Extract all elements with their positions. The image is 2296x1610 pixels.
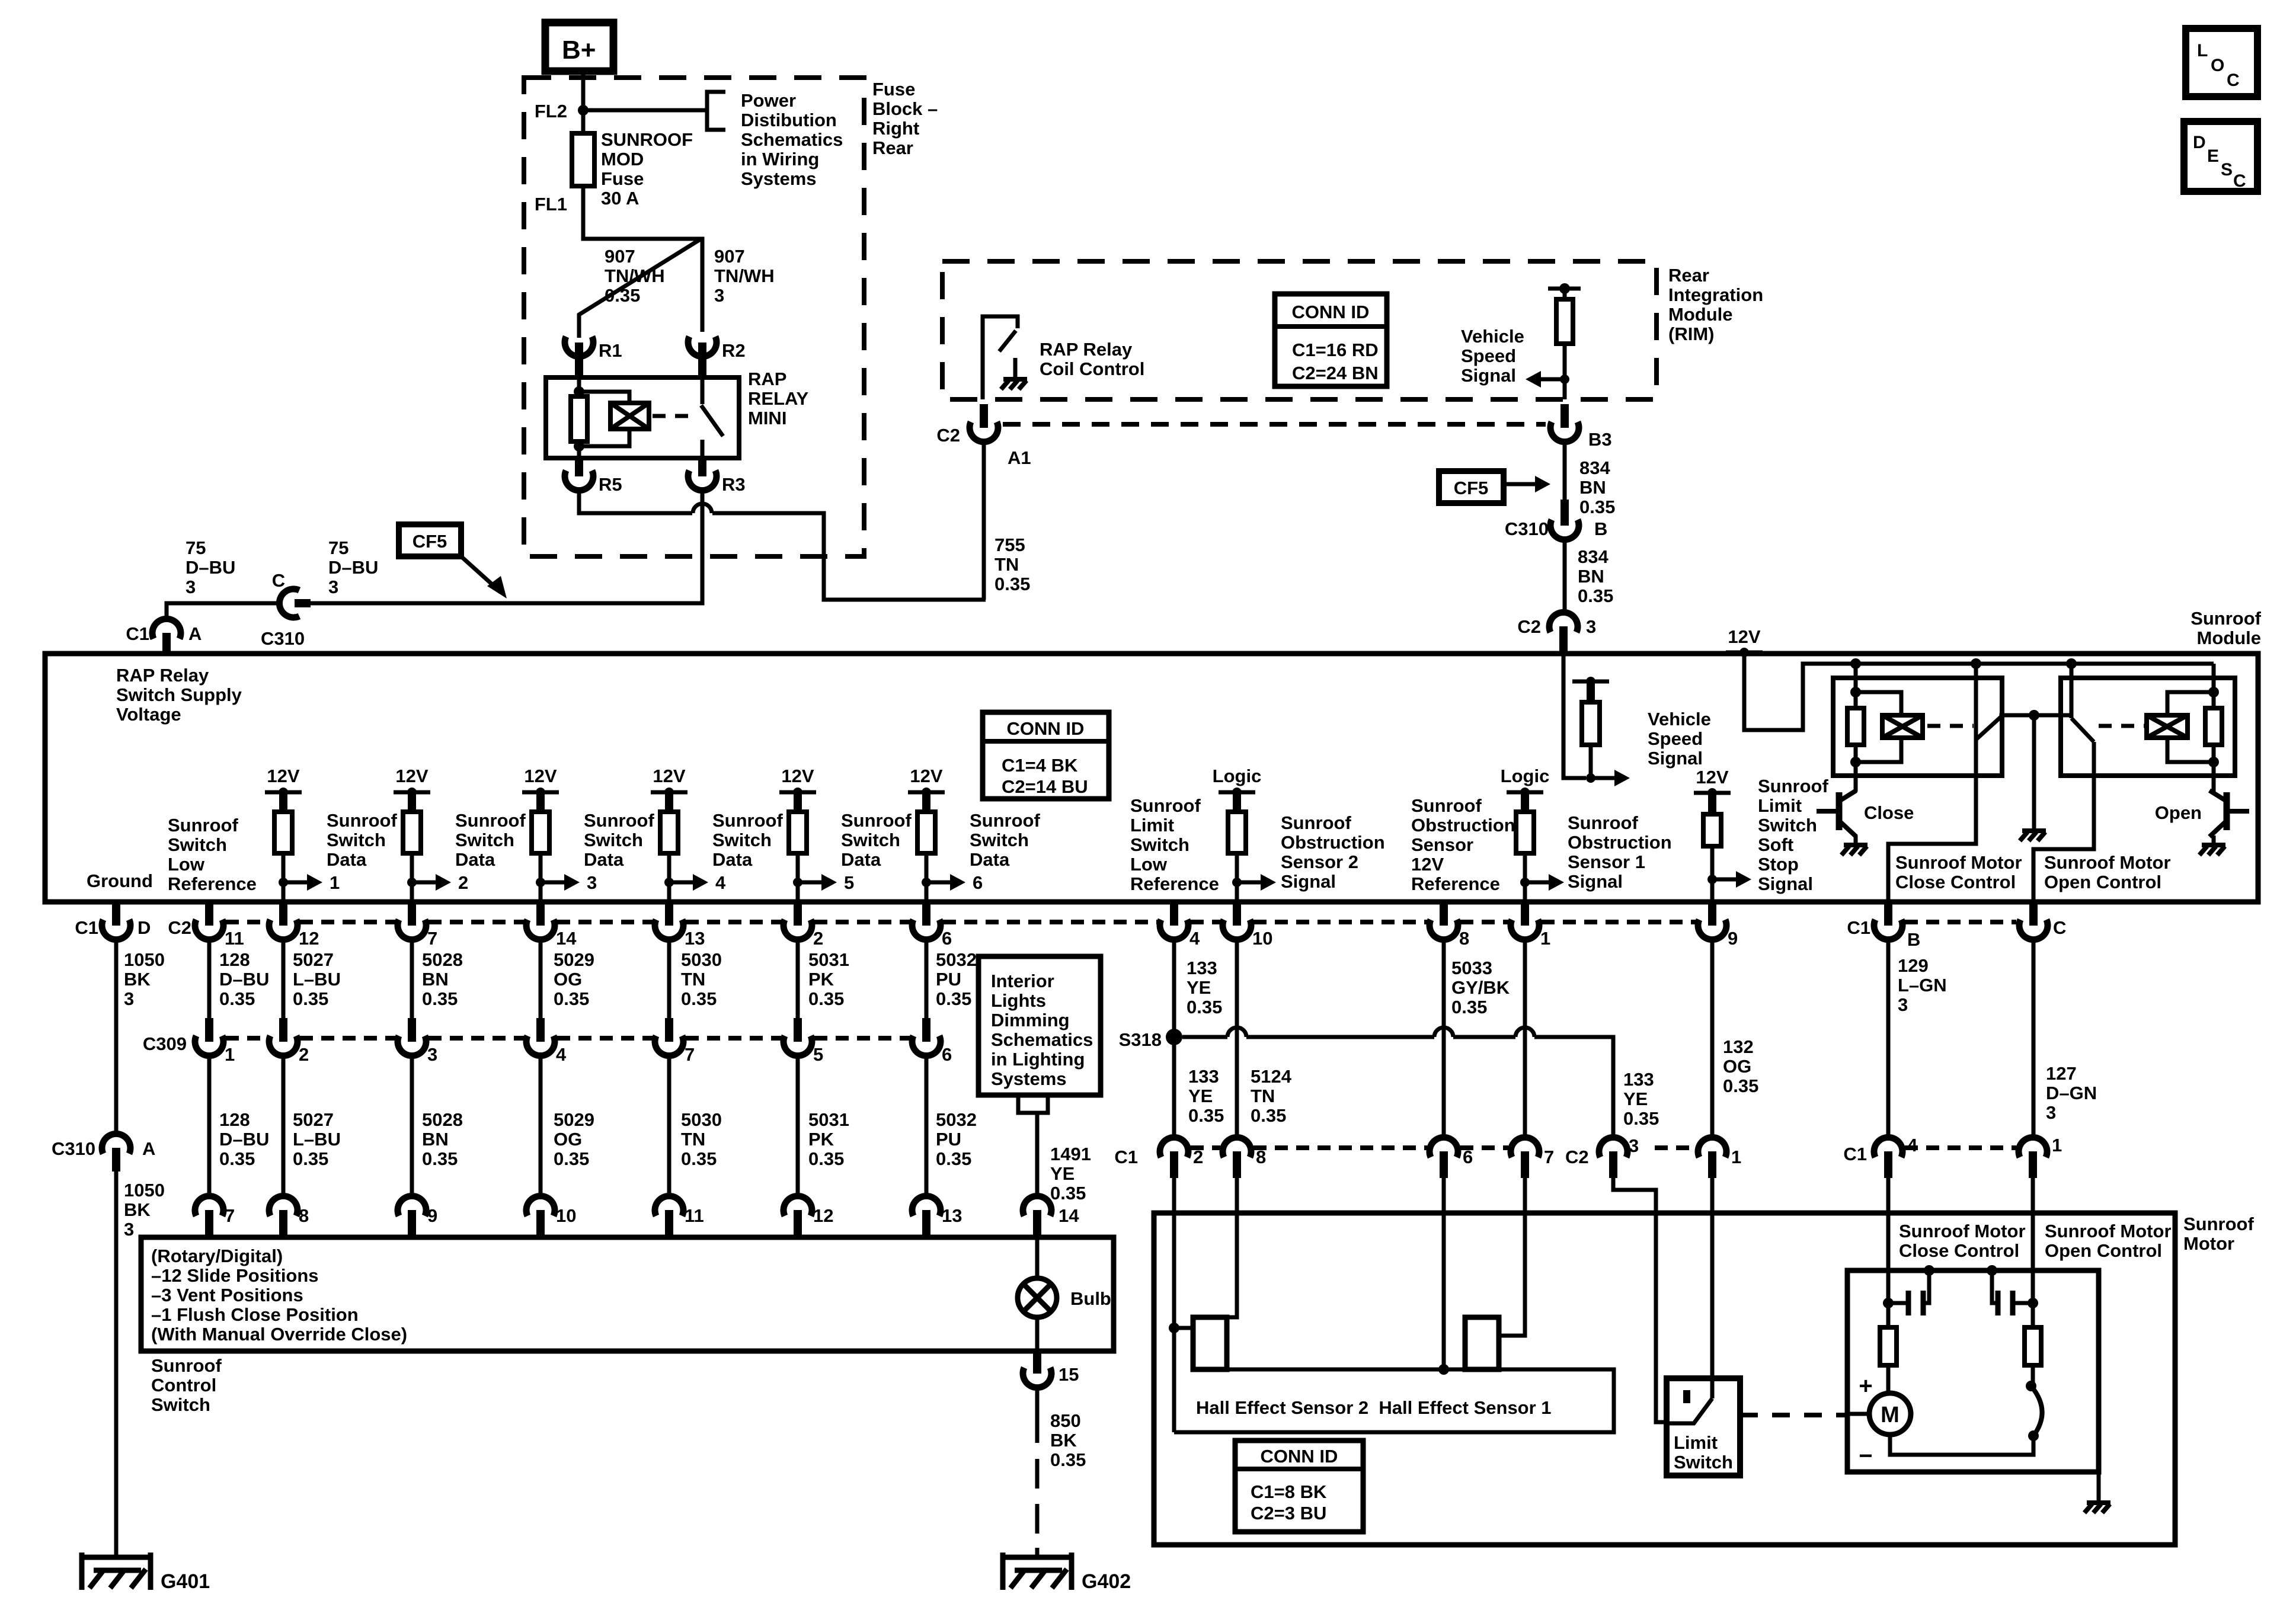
svg-text:Data: Data xyxy=(584,849,624,870)
svg-text:Rear: Rear xyxy=(1668,265,1709,286)
svg-text:0.35: 0.35 xyxy=(1579,497,1615,517)
svg-text:5031: 5031 xyxy=(808,949,849,970)
wire 133 YE pin 3 to limit switch xyxy=(1613,1178,1667,1422)
connector C309 pin 4 xyxy=(536,1018,545,1042)
svg-text:Sunroof: Sunroof xyxy=(970,810,1040,831)
DESC reference box xyxy=(2184,121,2257,191)
svg-text:BN: BN xyxy=(422,1129,449,1150)
svg-text:Switch: Switch xyxy=(1674,1452,1733,1473)
svg-text:3: 3 xyxy=(124,988,134,1009)
svg-text:15: 15 xyxy=(1059,1364,1079,1385)
RAP relay mini box xyxy=(546,377,739,458)
svg-text:3: 3 xyxy=(186,577,196,597)
wire S318 branch down to C1-2 xyxy=(1172,1037,1176,1138)
svg-text:C2=24 BN: C2=24 BN xyxy=(1292,363,1379,383)
svg-text:0.35: 0.35 xyxy=(1451,997,1487,1017)
svg-text:6: 6 xyxy=(942,928,952,949)
connector C2 pin 2 xyxy=(794,902,802,926)
open relay mech link dashes xyxy=(2099,724,2144,728)
svg-text:Sunroof: Sunroof xyxy=(168,815,238,836)
svg-text:Fuse: Fuse xyxy=(601,168,644,189)
svg-text:L–BU: L–BU xyxy=(293,969,341,990)
svg-text:1050: 1050 xyxy=(124,949,165,970)
motor dash lead xyxy=(1847,1412,1869,1416)
svg-text:4: 4 xyxy=(1189,928,1200,949)
svg-text:Sensor 2: Sensor 2 xyxy=(1281,852,1358,872)
svg-text:1: 1 xyxy=(1731,1147,1741,1167)
svg-text:Fuse: Fuse xyxy=(872,79,915,100)
svg-text:Speed: Speed xyxy=(1648,728,1703,749)
wire data branch 5 to connector xyxy=(796,882,800,902)
svg-text:FL1: FL1 xyxy=(535,194,567,215)
svg-text:Sunroof: Sunroof xyxy=(712,810,783,831)
bulb xyxy=(1018,1278,1057,1317)
svg-text:C1: C1 xyxy=(1114,1147,1138,1167)
svg-text:3: 3 xyxy=(2046,1102,2056,1123)
svg-text:–12 Slide Positions: –12 Slide Positions xyxy=(151,1265,319,1286)
motor internal limit contact xyxy=(2026,1381,2036,1391)
connector motor C1 pin 1 xyxy=(2019,1137,2047,1157)
connector pin R5 xyxy=(575,458,583,476)
svg-text:A: A xyxy=(142,1138,155,1159)
svg-text:Dimming: Dimming xyxy=(991,1010,1070,1030)
resistor data branch 1 xyxy=(274,812,292,853)
svg-text:Vehicle: Vehicle xyxy=(1648,709,1711,729)
svg-text:128: 128 xyxy=(219,1109,250,1130)
svg-text:12: 12 xyxy=(813,1205,833,1226)
connector C2 pin 10 xyxy=(1233,902,1241,926)
svg-text:0.35: 0.35 xyxy=(293,988,328,1009)
motor conn id box xyxy=(1235,1441,1363,1532)
wire 1050 BK to G401 xyxy=(114,1172,119,1555)
svg-text:C: C xyxy=(2227,71,2240,90)
svg-text:Sunroof: Sunroof xyxy=(584,810,654,831)
svg-text:in Lighting: in Lighting xyxy=(991,1049,1085,1070)
resistor data branch 6 xyxy=(917,812,935,853)
svg-text:Reference: Reference xyxy=(1411,873,1500,894)
svg-text:Signal: Signal xyxy=(1461,365,1516,386)
svg-text:12V: 12V xyxy=(1728,626,1760,647)
limit switch blade xyxy=(1667,1398,1712,1423)
open relay switch blade xyxy=(2066,658,2077,669)
svg-text:FL2: FL2 xyxy=(535,101,567,121)
svg-text:+: + xyxy=(1859,1373,1872,1399)
svg-text:CF5: CF5 xyxy=(1454,478,1489,498)
wire 755 TN from A1 down xyxy=(982,441,986,600)
svg-text:Open Control: Open Control xyxy=(2044,872,2161,892)
connector switch pin 8 xyxy=(269,1196,298,1216)
svg-text:B+: B+ xyxy=(562,36,596,65)
svg-text:Low: Low xyxy=(1130,854,1168,875)
connector pin R3 xyxy=(698,458,706,476)
junction dot hall sensor 2 supply xyxy=(1169,1323,1179,1333)
svg-text:7: 7 xyxy=(685,1044,695,1065)
svg-text:C2: C2 xyxy=(1517,616,1541,637)
resistor data branch 2 xyxy=(403,812,421,853)
svg-text:Signal: Signal xyxy=(1568,871,1623,892)
connector C2 pin 14 xyxy=(536,902,545,926)
wire 1491 YE xyxy=(1035,1113,1040,1196)
svg-text:Sunroof: Sunroof xyxy=(2191,608,2261,629)
svg-text:RAP: RAP xyxy=(748,369,786,389)
sunroof control switch box xyxy=(141,1237,1114,1351)
connector C2 pin 13 xyxy=(665,902,673,926)
svg-text:S318: S318 xyxy=(1119,1029,1162,1050)
svg-text:133: 133 xyxy=(1188,1066,1219,1087)
svg-text:6: 6 xyxy=(1463,1147,1473,1167)
connector hall row pin 1 xyxy=(1698,1137,1726,1157)
svg-text:Signal: Signal xyxy=(1648,748,1703,769)
svg-text:Open Control: Open Control xyxy=(2045,1240,2162,1261)
motor bottom wire xyxy=(1890,1435,2033,1455)
svg-text:Signal: Signal xyxy=(1758,873,1813,894)
module conn id box xyxy=(983,712,1109,799)
sunroof switch data 2 arrow xyxy=(407,878,417,887)
splice S318 xyxy=(1166,1029,1182,1045)
svg-text:Block –: Block – xyxy=(872,98,938,119)
wire FL2 to power distribution pointer xyxy=(583,108,707,113)
wire close control C1-B to C1-4 xyxy=(1886,939,1891,1138)
svg-text:5028: 5028 xyxy=(422,949,463,970)
battery feed B+ box xyxy=(545,23,613,71)
connector C2 pin 6 xyxy=(922,902,930,926)
svg-text:0.35: 0.35 xyxy=(1578,585,1613,606)
svg-text:Sunroof: Sunroof xyxy=(1411,795,1482,816)
svg-text:0.35: 0.35 xyxy=(1188,1105,1224,1126)
svg-text:Logic: Logic xyxy=(1501,766,1550,786)
svg-text:(Rotary/Digital): (Rotary/Digital) xyxy=(151,1246,283,1266)
open relay coil winding xyxy=(2167,692,2214,715)
svg-text:5029: 5029 xyxy=(554,949,594,970)
svg-text:C2: C2 xyxy=(1565,1147,1589,1167)
svg-text:Control: Control xyxy=(151,1375,216,1395)
svg-text:0.35: 0.35 xyxy=(1251,1105,1286,1126)
svg-text:B3: B3 xyxy=(1588,429,1612,450)
svg-text:5033: 5033 xyxy=(1451,958,1492,978)
wire obstruction sensor 1 signal down xyxy=(1523,939,1527,1138)
svg-text:CONN ID: CONN ID xyxy=(1261,1446,1338,1467)
RAP relay coil control switch symbol xyxy=(983,316,1018,399)
svg-text:PU: PU xyxy=(936,1129,961,1150)
svg-text:C2: C2 xyxy=(168,917,191,938)
sunroof switch data 6 arrow xyxy=(922,878,931,887)
wire 834 BN C310-B down to module C2-3 xyxy=(1563,539,1567,610)
svg-text:5029: 5029 xyxy=(554,1109,594,1130)
svg-text:Switch: Switch xyxy=(584,830,643,850)
svg-text:C310: C310 xyxy=(261,628,305,649)
node FL2 junction xyxy=(578,105,589,116)
svg-text:0.35: 0.35 xyxy=(219,988,255,1009)
connector C309 pin 6 xyxy=(922,1018,930,1042)
ground close transistor xyxy=(1844,843,1868,847)
CF5 arrow box right xyxy=(1439,471,1504,503)
svg-text:Vehicle: Vehicle xyxy=(1461,326,1524,347)
sunroof switch data 1 arrow xyxy=(279,878,288,887)
wire limit switch low reference to S318 xyxy=(1172,939,1176,1037)
wire hall C1-2 down xyxy=(1172,1178,1176,1432)
close relay switch blade xyxy=(1974,664,1978,740)
wire 850 BK to G402 xyxy=(1035,1387,1040,1443)
svg-text:Switch: Switch xyxy=(970,830,1029,850)
svg-text:(RIM): (RIM) xyxy=(1668,324,1714,344)
dashed connector line motor C1 xyxy=(1905,1145,2016,1150)
RIM dashed box xyxy=(942,261,1657,399)
svg-text:Sunroof Motor: Sunroof Motor xyxy=(2044,852,2171,873)
svg-text:C1=16 RD: C1=16 RD xyxy=(1292,340,1379,360)
svg-text:0.35: 0.35 xyxy=(681,988,717,1009)
connector pin R1 xyxy=(565,337,593,357)
svg-text:Limit: Limit xyxy=(1758,795,1802,816)
svg-text:7: 7 xyxy=(427,928,437,949)
wire into C309 pin 5 xyxy=(796,939,800,1018)
svg-text:Sunroof: Sunroof xyxy=(1568,812,1638,833)
connector C309 pin 2 xyxy=(279,1018,287,1042)
svg-text:Data: Data xyxy=(327,849,367,870)
svg-text:7: 7 xyxy=(1544,1147,1554,1167)
svg-text:0.35: 0.35 xyxy=(808,1148,844,1169)
svg-text:Close Control: Close Control xyxy=(1899,1240,2019,1261)
relay coil resistor xyxy=(577,379,581,396)
vehicle speed signal resistor in RIM xyxy=(1548,287,1581,291)
svg-text:0.35: 0.35 xyxy=(219,1148,255,1169)
inline connector C310 pin A xyxy=(102,1134,130,1154)
svg-text:1491: 1491 xyxy=(1050,1144,1091,1164)
svg-text:12V: 12V xyxy=(524,766,557,786)
wire R3 down to C310 row xyxy=(311,489,702,603)
svg-text:834: 834 xyxy=(1579,457,1610,478)
connector C309 pin 5 xyxy=(794,1018,802,1042)
svg-text:9: 9 xyxy=(427,1205,437,1226)
svg-text:Systems: Systems xyxy=(991,1068,1067,1089)
svg-text:B: B xyxy=(1907,929,1920,950)
close driver transistor Q-close xyxy=(1836,792,1843,830)
wire 12V rail xyxy=(1744,652,2214,730)
svg-text:C1: C1 xyxy=(126,623,149,644)
svg-text:Switch: Switch xyxy=(455,830,514,850)
wire diagonal branch to R1 xyxy=(579,239,701,338)
svg-text:3: 3 xyxy=(714,285,724,306)
svg-text:3: 3 xyxy=(124,1219,134,1240)
svg-text:MOD: MOD xyxy=(601,149,644,169)
connector row C2 dashed line A1-B3 xyxy=(1003,422,1546,427)
svg-text:(With Manual Override Close): (With Manual Override Close) xyxy=(151,1324,407,1345)
svg-text:Reference: Reference xyxy=(168,873,257,894)
svg-text:7: 7 xyxy=(225,1205,235,1226)
svg-text:10: 10 xyxy=(1252,928,1272,949)
svg-text:Speed: Speed xyxy=(1461,345,1516,366)
svg-text:850: 850 xyxy=(1050,1410,1081,1431)
svg-text:Data: Data xyxy=(712,849,753,870)
wire C1-4 into motor xyxy=(1886,1178,1891,1303)
limit switch box xyxy=(1667,1378,1740,1475)
svg-text:–1 Flush Close Position: –1 Flush Close Position xyxy=(151,1304,359,1325)
svg-text:OG: OG xyxy=(1723,1056,1751,1077)
svg-text:BN: BN xyxy=(1578,566,1604,587)
svg-text:0.35: 0.35 xyxy=(681,1148,717,1169)
svg-text:Reference: Reference xyxy=(1130,873,1219,894)
svg-text:Switch: Switch xyxy=(151,1394,210,1415)
wire into C309 pin 7 xyxy=(667,939,671,1018)
connector motor C1 pin 4 xyxy=(1874,1137,1902,1157)
svg-text:YE: YE xyxy=(1187,977,1211,998)
wire hall C1-8 to sensor 2 xyxy=(1227,1178,1237,1317)
close relay box xyxy=(1833,678,2002,776)
svg-text:0.35: 0.35 xyxy=(422,988,458,1009)
power distribution bracket xyxy=(707,92,725,130)
wire fuse FL1 down and right to R2 xyxy=(583,186,702,332)
svg-text:Distibution: Distibution xyxy=(741,110,837,130)
ground G402 xyxy=(1003,1553,1072,1557)
svg-text:12V: 12V xyxy=(910,766,942,786)
svg-text:0.35: 0.35 xyxy=(554,988,589,1009)
svg-text:3: 3 xyxy=(587,872,597,893)
connector C2 pin 9 xyxy=(1708,902,1716,926)
wire C309 to switch pin 12 xyxy=(796,1055,800,1196)
svg-text:TN/WH: TN/WH xyxy=(714,265,775,286)
svg-text:Stop: Stop xyxy=(1758,854,1799,875)
svg-text:3: 3 xyxy=(1586,616,1596,637)
svg-text:GY/BK: GY/BK xyxy=(1451,977,1510,998)
svg-text:4: 4 xyxy=(556,1044,567,1065)
svg-text:YE: YE xyxy=(1623,1089,1648,1109)
svg-text:PK: PK xyxy=(808,1129,834,1150)
svg-text:12: 12 xyxy=(299,928,319,949)
resistor data branch 5 xyxy=(789,812,807,853)
svg-text:YE: YE xyxy=(1188,1086,1213,1106)
motor close brush resistor xyxy=(1886,1303,1891,1327)
svg-text:14: 14 xyxy=(1059,1205,1079,1226)
interior lights dimming box xyxy=(978,956,1101,1095)
svg-text:907: 907 xyxy=(714,246,745,267)
svg-text:834: 834 xyxy=(1578,546,1609,567)
wire hall C2-7 to sensor 1 xyxy=(1499,1178,1525,1336)
svg-text:Switch: Switch xyxy=(712,830,772,850)
svg-text:1: 1 xyxy=(1540,928,1550,949)
svg-text:Sunroof: Sunroof xyxy=(2183,1214,2254,1234)
wire data branch 6 to connector xyxy=(925,882,929,902)
svg-text:C1: C1 xyxy=(75,917,98,938)
connector C1 pin A into sunroof module xyxy=(152,619,181,639)
svg-text:M: M xyxy=(1881,1403,1900,1427)
svg-text:TN: TN xyxy=(994,554,1019,575)
vehicle speed signal branch in module xyxy=(1563,654,1586,778)
open relay box xyxy=(2061,678,2235,776)
svg-text:R2: R2 xyxy=(722,340,746,361)
relay pole junction to ground xyxy=(2029,710,2039,721)
svg-text:Sunroof: Sunroof xyxy=(327,810,397,831)
svg-text:RELAY: RELAY xyxy=(748,388,809,409)
svg-text:Schematics: Schematics xyxy=(741,129,843,150)
svg-text:0.35: 0.35 xyxy=(1187,997,1222,1017)
svg-text:Sunroof: Sunroof xyxy=(151,1355,222,1376)
motor inner box xyxy=(1847,1270,2099,1472)
connector C309 pin 7 xyxy=(665,1018,673,1042)
svg-text:5028: 5028 xyxy=(422,1109,463,1130)
svg-text:Module: Module xyxy=(2197,628,2262,648)
motor assembly ground xyxy=(2097,1472,2101,1500)
svg-text:D–BU: D–BU xyxy=(219,1129,269,1150)
svg-text:Switch Supply: Switch Supply xyxy=(116,684,242,705)
svg-text:0.35: 0.35 xyxy=(422,1148,458,1169)
svg-text:O: O xyxy=(2211,56,2224,75)
svg-text:2: 2 xyxy=(813,928,823,949)
svg-text:5031: 5031 xyxy=(808,1109,849,1130)
svg-text:Voltage: Voltage xyxy=(116,704,181,725)
svg-text:Bulb: Bulb xyxy=(1070,1288,1111,1309)
svg-text:11: 11 xyxy=(685,1205,704,1226)
svg-text:Switch: Switch xyxy=(1758,815,1817,836)
svg-text:D–BU: D–BU xyxy=(328,557,378,578)
svg-text:8: 8 xyxy=(1459,928,1469,949)
hall effect sensor 2 box xyxy=(1193,1317,1227,1369)
svg-text:C: C xyxy=(272,570,285,591)
wire S318 to pin 3 with hops xyxy=(1182,1035,1227,1039)
svg-text:CF5: CF5 xyxy=(412,531,447,552)
svg-text:0.35: 0.35 xyxy=(936,988,971,1009)
fuse FL2-FL1 SUNROOF MOD 30A xyxy=(581,110,586,133)
connector hall row pin 6 xyxy=(1430,1137,1458,1157)
svg-text:Limit: Limit xyxy=(1130,815,1174,836)
svg-text:13: 13 xyxy=(685,928,705,949)
connector C2 pin 8 xyxy=(1440,902,1448,926)
connector switch pin 11 xyxy=(655,1196,683,1216)
svg-text:5124: 5124 xyxy=(1251,1066,1292,1087)
svg-text:10: 10 xyxy=(556,1205,576,1226)
svg-text:9: 9 xyxy=(1728,928,1738,949)
connector C1 pin B xyxy=(1884,902,1892,926)
svg-text:1: 1 xyxy=(330,872,340,893)
close relay mech link dashes xyxy=(1927,724,1974,728)
svg-text:Sunroof: Sunroof xyxy=(1758,776,1828,796)
wire open control C to C1-1 xyxy=(2032,939,2036,1138)
ground at coil control switch xyxy=(1013,358,1018,378)
svg-text:PK: PK xyxy=(808,969,834,990)
sunroof motor assembly box xyxy=(1154,1213,2175,1545)
svg-text:2: 2 xyxy=(1193,1147,1203,1167)
wire ground 1050 BK to C310 A xyxy=(114,939,119,1134)
svg-text:2: 2 xyxy=(458,872,468,893)
inline connector C310 pin C xyxy=(295,599,311,607)
svg-text:TN/WH: TN/WH xyxy=(605,265,665,286)
svg-text:Switch: Switch xyxy=(327,830,386,850)
wire C310-C to module pin A xyxy=(167,603,279,619)
svg-text:B: B xyxy=(1594,518,1607,539)
svg-text:Hall Effect Sensor 2 Hall Eff: Hall Effect Sensor 2 Hall Effect Sensor … xyxy=(1196,1397,1552,1418)
svg-text:Sunroof: Sunroof xyxy=(1281,812,1351,833)
wire into C309 pin 3 xyxy=(410,939,414,1018)
svg-text:C310: C310 xyxy=(1505,518,1549,539)
svg-text:3: 3 xyxy=(1898,994,1908,1015)
ground open transistor xyxy=(2202,843,2225,847)
svg-text:133: 133 xyxy=(1187,958,1217,978)
svg-text:C310: C310 xyxy=(52,1138,95,1159)
svg-text:Ground: Ground xyxy=(87,870,153,891)
svg-text:128: 128 xyxy=(219,949,250,970)
open relay coil branch xyxy=(2212,664,2216,708)
close relay coil winding xyxy=(1856,692,1901,715)
svg-text:Low: Low xyxy=(168,854,205,875)
wire into C309 pin 1 xyxy=(207,939,212,1018)
resistor data branch 3 xyxy=(532,812,549,853)
svg-text:1: 1 xyxy=(2052,1135,2062,1156)
dashed connector line C1 right B-C xyxy=(1905,920,2016,924)
svg-text:C2=3 BU: C2=3 BU xyxy=(1251,1503,1326,1523)
connector switch pin 12 xyxy=(784,1196,812,1216)
svg-text:5032: 5032 xyxy=(936,949,977,970)
hall sensor bus wiring xyxy=(1227,1368,1465,1372)
svg-text:D–BU: D–BU xyxy=(186,557,235,578)
CF5 reference box with arrow xyxy=(399,524,461,556)
